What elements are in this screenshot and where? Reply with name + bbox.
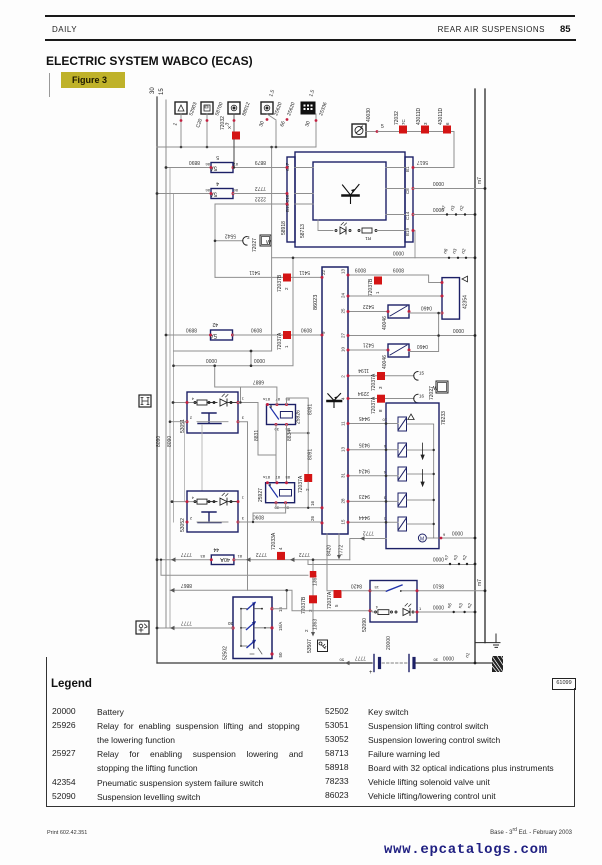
junction dots on top feed wire [180, 146, 183, 149]
svg-text:26: 26 [310, 515, 315, 521]
wire 9424 pin 31 [348, 475, 398, 477]
led 58713 and resistor R1 [318, 220, 333, 231]
wire 2294 pin 4 [348, 398, 414, 400]
right bus line inner [474, 89, 476, 663]
wire 8090 labels on left bus [156, 436, 173, 447]
legend left column [52, 706, 76, 716]
wire to fuse 4 [157, 193, 211, 195]
svg-text:8867: 8867 [181, 582, 192, 588]
wire 5542 to connector 72027 [215, 240, 243, 242]
wire 7772 drop from control unit [338, 534, 340, 556]
svg-text:0000: 0000 [433, 604, 444, 610]
svg-text:72033A: 72033A [271, 532, 277, 550]
wire 6887 from relay 25926 [215, 366, 277, 405]
svg-text:4: 4 [191, 397, 194, 402]
legend right column [325, 706, 349, 716]
svg-text:30: 30 [227, 621, 233, 626]
wire C14 0000 to inner bus [413, 214, 475, 216]
svg-text:72037B: 72037B [368, 278, 374, 296]
wire 9435 pin 13 [348, 449, 398, 451]
svg-text:5411: 5411 [249, 269, 260, 275]
connector icon bottom left [136, 621, 149, 634]
svg-text:7772: 7772 [299, 551, 310, 557]
svg-text:40046: 40046 [382, 316, 388, 330]
svg-text:9435: 9435 [359, 441, 370, 447]
bus 15 (left vertical) [159, 88, 166, 628]
svg-text:30: 30 [150, 87, 156, 94]
svg-text:86023: 86023 [313, 295, 319, 310]
lamp symbol in board [343, 185, 360, 204]
wire 2222 to board C16 [215, 204, 287, 277]
svg-text:0000: 0000 [254, 357, 265, 363]
relay 25926 [263, 397, 302, 432]
valve coil 2 [398, 443, 407, 457]
53052 top wire [172, 501, 197, 503]
svg-text:58918: 58918 [281, 221, 287, 235]
svg-text:72027: 72027 [252, 238, 258, 252]
svg-text:9424: 9424 [359, 467, 370, 473]
H marker box [139, 395, 151, 407]
bus 30 (left vertical) [150, 87, 157, 663]
svg-text:15: 15 [278, 606, 283, 612]
svg-text:42354: 42354 [463, 295, 469, 309]
svg-text:2: 2 [189, 416, 192, 421]
connector 72037A-3 red square [371, 372, 385, 391]
connector icon 25336 (black) [301, 102, 316, 147]
svg-text:66: 66 [279, 120, 287, 127]
svg-text:1: 1 [284, 345, 289, 348]
53052 bottom pins [186, 521, 189, 524]
svg-text:25336: 25336 [318, 101, 328, 116]
wires 8831 8834 below relay 25926 [276, 425, 308, 482]
svg-text:0460: 0460 [421, 305, 432, 311]
svg-text:1: 1 [375, 291, 380, 294]
connector icon 58700 [201, 102, 213, 147]
levelling switch 52090 box [370, 581, 417, 623]
legend borders [46, 657, 47, 807]
wire 0000 mid row [174, 258, 294, 366]
pressure sensor 40046 b [382, 344, 411, 369]
svg-text:50: 50 [278, 652, 283, 658]
wire 0460 b up to 0000 [409, 313, 439, 352]
svg-text:0000: 0000 [433, 206, 444, 212]
svg-text:8420: 8420 [351, 582, 362, 588]
svg-text:0000: 0000 [393, 249, 404, 255]
svg-text:86: 86 [205, 188, 210, 193]
svg-text:30: 30 [258, 120, 266, 127]
53051 output wire to relay web [238, 403, 276, 591]
connector icon 52903 [175, 102, 187, 147]
svg-text:72037A: 72037A [371, 373, 377, 391]
wire 7772 into valve unit pin 2 [350, 539, 386, 560]
wire C8 0000 to outer bus [413, 188, 485, 190]
svg-text:0000: 0000 [206, 357, 217, 363]
svg-text:6887: 6887 [253, 379, 264, 385]
wire 5617 top run [378, 132, 454, 168]
53051 bottom pins [186, 420, 189, 423]
connector 72027 W box [260, 235, 271, 246]
wire 5411 from node to pin 22 [215, 276, 322, 278]
board pin dots [286, 166, 415, 232]
svg-text:1: 1 [241, 496, 244, 501]
connector 72037A-2 red square [298, 474, 312, 493]
svg-text:10: 10 [341, 346, 346, 352]
relay 25927 [258, 475, 295, 511]
svg-text:8: 8 [378, 409, 383, 412]
connector 72037B-3 red square [310, 571, 317, 578]
header top rule [45, 15, 575, 17]
svg-text:8091: 8091 [308, 449, 314, 460]
connector 72037A-5 red square [327, 590, 342, 609]
connector 72032 7C red square [394, 111, 407, 134]
svg-text:0000: 0000 [453, 327, 464, 333]
connector icon 25620 [261, 102, 276, 147]
svg-text:53052: 53052 [180, 518, 186, 532]
key icon box [318, 640, 328, 652]
failure switch 42354 [441, 276, 469, 319]
valve coil 4 [398, 493, 407, 507]
svg-text:n2: n2 [460, 247, 467, 254]
svg-text:0000: 0000 [433, 180, 444, 186]
footer [47, 830, 87, 836]
svg-text:78233: 78233 [441, 411, 447, 425]
svg-text:0460: 0460 [417, 343, 428, 349]
motor M circle [418, 534, 426, 543]
connector 43011D-3 red square [416, 107, 429, 133]
svg-text:43011D: 43011D [438, 107, 444, 125]
half-ring connector 15 [414, 372, 418, 381]
sensor icon 40030 [352, 124, 376, 137]
svg-text:2: 2 [305, 488, 310, 491]
svg-text:44: 44 [213, 546, 219, 552]
53052 resistor [194, 499, 217, 504]
board pin labels [285, 162, 410, 236]
svg-text:n3: n3 [451, 247, 458, 254]
53051 diode [220, 394, 238, 406]
svg-text:C8: C8 [405, 188, 410, 194]
svg-text:40A: 40A [220, 556, 230, 562]
svg-text:C20: C20 [195, 118, 204, 129]
fuse 5 (5A) [205, 154, 238, 173]
svg-text:72032: 72032 [220, 116, 226, 130]
wire 1363 vertical [312, 560, 314, 633]
svg-text:9: 9 [443, 532, 446, 537]
relay 25927 bottom wires [253, 503, 308, 522]
svg-text:M: M [420, 537, 424, 543]
key switch contacts [247, 603, 256, 648]
svg-text:50: 50 [339, 658, 344, 663]
svg-text:5421: 5421 [363, 342, 374, 348]
board inner display box [313, 162, 386, 220]
svg-text:7772: 7772 [363, 530, 374, 536]
svg-text:m7: m7 [477, 579, 483, 586]
svg-text:5617: 5617 [417, 159, 428, 165]
earth ground symbol [475, 634, 500, 647]
svg-text:52090: 52090 [362, 618, 368, 632]
valve arrows [421, 443, 424, 486]
svg-text:9444: 9444 [359, 514, 370, 520]
svg-text:25: 25 [341, 308, 346, 314]
svg-text:X: X [227, 126, 232, 129]
control unit 86023 box [322, 267, 348, 534]
svg-text:0000: 0000 [452, 530, 463, 536]
svg-text:W: W [266, 240, 271, 246]
valve coil 1 [398, 417, 407, 431]
svg-text:25620: 25620 [286, 101, 296, 116]
svg-text:72037B: 72037B [277, 274, 283, 292]
chassis ground hatched [492, 656, 503, 672]
wire 8090 to pin 9 [233, 334, 323, 336]
svg-text:7772: 7772 [256, 551, 267, 557]
half-ring connector 3 [243, 237, 247, 246]
svg-text:2: 2 [189, 516, 192, 521]
svg-text:87: 87 [275, 475, 280, 480]
svg-text:15: 15 [159, 88, 165, 95]
svg-text:3: 3 [378, 386, 383, 389]
pressure sensor 40046 a [382, 305, 411, 330]
connector 72037B-2 red square [277, 274, 291, 293]
svg-text:87a: 87a [263, 475, 270, 480]
wire B19 drop to 0000 row [414, 231, 416, 258]
svg-text:27: 27 [341, 332, 346, 338]
svg-text:11: 11 [341, 421, 346, 426]
svg-text:n3: n3 [452, 554, 459, 561]
svg-text:3: 3 [423, 122, 428, 125]
connector 72037A-8 red square [371, 395, 385, 414]
svg-text:4: 4 [375, 605, 378, 610]
svg-text:6: 6 [445, 122, 450, 125]
svg-text:n6: n6 [442, 247, 449, 254]
svg-text:4: 4 [278, 547, 283, 550]
svg-text:3: 3 [247, 235, 250, 240]
svg-text:72032: 72032 [394, 111, 400, 125]
header bottom rule [45, 39, 576, 41]
wire 0460 a [409, 312, 442, 314]
svg-text:1: 1 [419, 606, 422, 611]
svg-text:22: 22 [321, 269, 326, 275]
svg-text:40046: 40046 [382, 355, 388, 369]
valve collector rail [407, 424, 434, 538]
svg-text:1: 1 [383, 517, 386, 522]
svg-text:5: 5 [216, 154, 219, 160]
svg-text:85: 85 [285, 475, 290, 480]
svg-text:30: 30 [433, 658, 438, 663]
svg-text:B1: B1 [405, 166, 410, 172]
svg-text:8090: 8090 [167, 436, 173, 447]
svg-text:1.5: 1.5 [268, 89, 276, 98]
fuse 42 (5A) [209, 321, 234, 340]
wire 8009 pin 13 to failure switch [348, 275, 442, 283]
battery 20000 [374, 655, 414, 672]
svg-text:3: 3 [383, 496, 386, 501]
fuse 4 (5A) [205, 180, 238, 199]
svg-text:3: 3 [241, 516, 244, 521]
svg-text:7C: 7C [401, 118, 406, 125]
connector 72033A-4 red square [271, 532, 285, 560]
svg-text:88012: 88012 [241, 101, 251, 116]
wire 8890 to fuse 5 [166, 167, 211, 169]
svg-text:0000: 0000 [433, 556, 444, 562]
svg-text:16: 16 [310, 500, 315, 506]
svg-text:72037A: 72037A [327, 591, 333, 609]
svg-text:4: 4 [341, 397, 346, 400]
board 58918 outer box [287, 152, 413, 247]
svg-text:13: 13 [341, 446, 346, 452]
svg-text:C14: C14 [405, 211, 410, 220]
svg-text:8090: 8090 [251, 327, 262, 333]
svg-text:1: 1 [172, 122, 179, 127]
connector 72037B-1 red square [368, 277, 382, 297]
svg-text:15/A: 15/A [278, 622, 283, 631]
svg-text:42: 42 [212, 321, 218, 327]
svg-text:30: 30 [304, 120, 312, 127]
key switch 52502 box [233, 597, 272, 659]
svg-text:8009: 8009 [355, 267, 366, 273]
svg-text:86: 86 [205, 162, 210, 167]
svg-text:+: + [369, 670, 373, 676]
svg-text:52903: 52903 [188, 101, 198, 116]
svg-text:52502: 52502 [223, 646, 229, 660]
svg-text:n6: n6 [446, 602, 453, 609]
svg-text:8834: 8834 [287, 430, 293, 441]
page title [46, 54, 253, 68]
svg-text:15: 15 [419, 371, 425, 376]
svg-text:43011D: 43011D [416, 107, 422, 125]
wire 1194 pin 2 [348, 375, 414, 377]
valve coil 3 [398, 467, 407, 481]
wire 7772 distribution row [161, 560, 308, 576]
svg-text:9423: 9423 [359, 493, 370, 499]
svg-text:15: 15 [341, 519, 346, 525]
svg-text:7777: 7777 [181, 620, 192, 626]
board right pin column [405, 157, 413, 242]
53051 resistor [194, 400, 217, 405]
svg-text:B19: B19 [405, 227, 410, 236]
svg-text:81: 81 [237, 554, 242, 559]
svg-text:5: 5 [334, 604, 339, 607]
wire 9423 pin 28 [348, 500, 398, 502]
svg-text:R1: R1 [365, 236, 371, 241]
svg-text:8091: 8091 [308, 404, 314, 415]
wire 5421 pin 10 to sensor b [348, 349, 388, 351]
wire 9445 pin 11 [348, 423, 398, 425]
svg-text:8090: 8090 [156, 436, 162, 447]
svg-text:25620: 25620 [273, 101, 283, 116]
svg-text:3: 3 [241, 416, 244, 421]
svg-text:n2: n2 [466, 602, 473, 609]
svg-text:8879: 8879 [255, 159, 266, 165]
svg-text:15: 15 [374, 585, 379, 590]
svg-text:16: 16 [419, 393, 425, 398]
wire pin 24 to failure switch [348, 295, 442, 297]
svg-text:1194: 1194 [358, 367, 369, 373]
svg-text:4: 4 [383, 470, 386, 475]
53051 top wire [173, 402, 197, 404]
svg-text:n2: n2 [461, 554, 468, 561]
svg-text:2222: 2222 [255, 196, 266, 202]
svg-text:53051: 53051 [180, 419, 186, 433]
wire 7777 from fuse 40A [234, 559, 350, 561]
svg-text:6: 6 [383, 444, 386, 449]
svg-text:72037B: 72037B [301, 596, 307, 614]
53052 diode [220, 493, 238, 505]
figure label [61, 72, 125, 88]
wire 8091 right of relays [287, 398, 309, 474]
svg-text:4: 4 [216, 180, 219, 186]
svg-text:8890: 8890 [186, 327, 197, 333]
wire 8867 [170, 590, 370, 610]
board left pin column [287, 157, 295, 242]
svg-text:53507: 53507 [307, 639, 313, 653]
svg-text:7772: 7772 [255, 185, 266, 191]
svg-text:8890: 8890 [189, 159, 200, 165]
wire 8420 into 52090 [342, 590, 371, 592]
fuse 40A feed row [157, 559, 211, 561]
svg-text:25927: 25927 [258, 488, 264, 502]
wire 9444 pin 15 [348, 521, 398, 523]
connector 72037A-1 red square [277, 331, 291, 350]
svg-text:24: 24 [341, 292, 346, 298]
wire 5422 pin 25 to sensor [348, 311, 388, 313]
svg-text:7777: 7777 [181, 551, 192, 557]
svg-text:58713: 58713 [300, 224, 306, 238]
wire 8090 gray vertical b [173, 194, 175, 522]
svg-text:4: 4 [191, 496, 194, 501]
svg-text:2294: 2294 [358, 390, 369, 396]
solenoid valve unit 78233 box [386, 403, 439, 549]
wire 7772 to board B15 [233, 193, 287, 195]
52090 bottom right 0000 wire [414, 611, 475, 613]
wire 0000 row to inner bus [272, 257, 475, 259]
battery to ground wire [416, 662, 492, 664]
node web near 0000 row [174, 147, 272, 366]
half-ring connector 16 [414, 394, 418, 403]
svg-text:8831: 8831 [254, 430, 260, 441]
52090 wire 8510 to outer bus [417, 590, 485, 592]
svg-text:28: 28 [341, 498, 346, 504]
svg-text:1.5: 1.5 [308, 89, 316, 98]
lamp symbol in 86023 [328, 394, 342, 408]
svg-text:0000: 0000 [443, 655, 454, 661]
svg-text:7772: 7772 [339, 545, 345, 556]
svg-text:25926: 25926 [296, 410, 302, 424]
svg-text:n3: n3 [457, 602, 464, 609]
svg-text:5: 5 [381, 124, 384, 130]
connector 72032 red square [220, 116, 240, 168]
svg-text:8420: 8420 [327, 545, 333, 556]
svg-text:87a: 87a [263, 397, 270, 402]
svg-text:8009: 8009 [393, 267, 404, 273]
lowering switch 53052 box [187, 491, 238, 532]
svg-text:31: 31 [341, 472, 346, 478]
svg-text:9445: 9445 [359, 415, 370, 421]
svg-text:m7: m7 [477, 177, 483, 184]
key switch pin 15 jog to 8867 [272, 590, 287, 608]
svg-text:72037A: 72037A [298, 475, 304, 493]
svg-text:13: 13 [341, 268, 346, 274]
svg-text:83: 83 [200, 554, 205, 559]
53051 push button [198, 413, 221, 424]
53052 push button [198, 512, 221, 523]
wire 8879 to board C17 [233, 167, 287, 169]
valve unit pin 9 wire 0000 to bus [441, 537, 475, 539]
connector icon 88012 [228, 102, 240, 131]
svg-text:5542: 5542 [225, 232, 236, 238]
svg-text:5411: 5411 [299, 269, 310, 275]
svg-text:58700: 58700 [214, 101, 224, 116]
fuse 40A [210, 546, 236, 565]
svg-text:2: 2 [304, 629, 309, 632]
